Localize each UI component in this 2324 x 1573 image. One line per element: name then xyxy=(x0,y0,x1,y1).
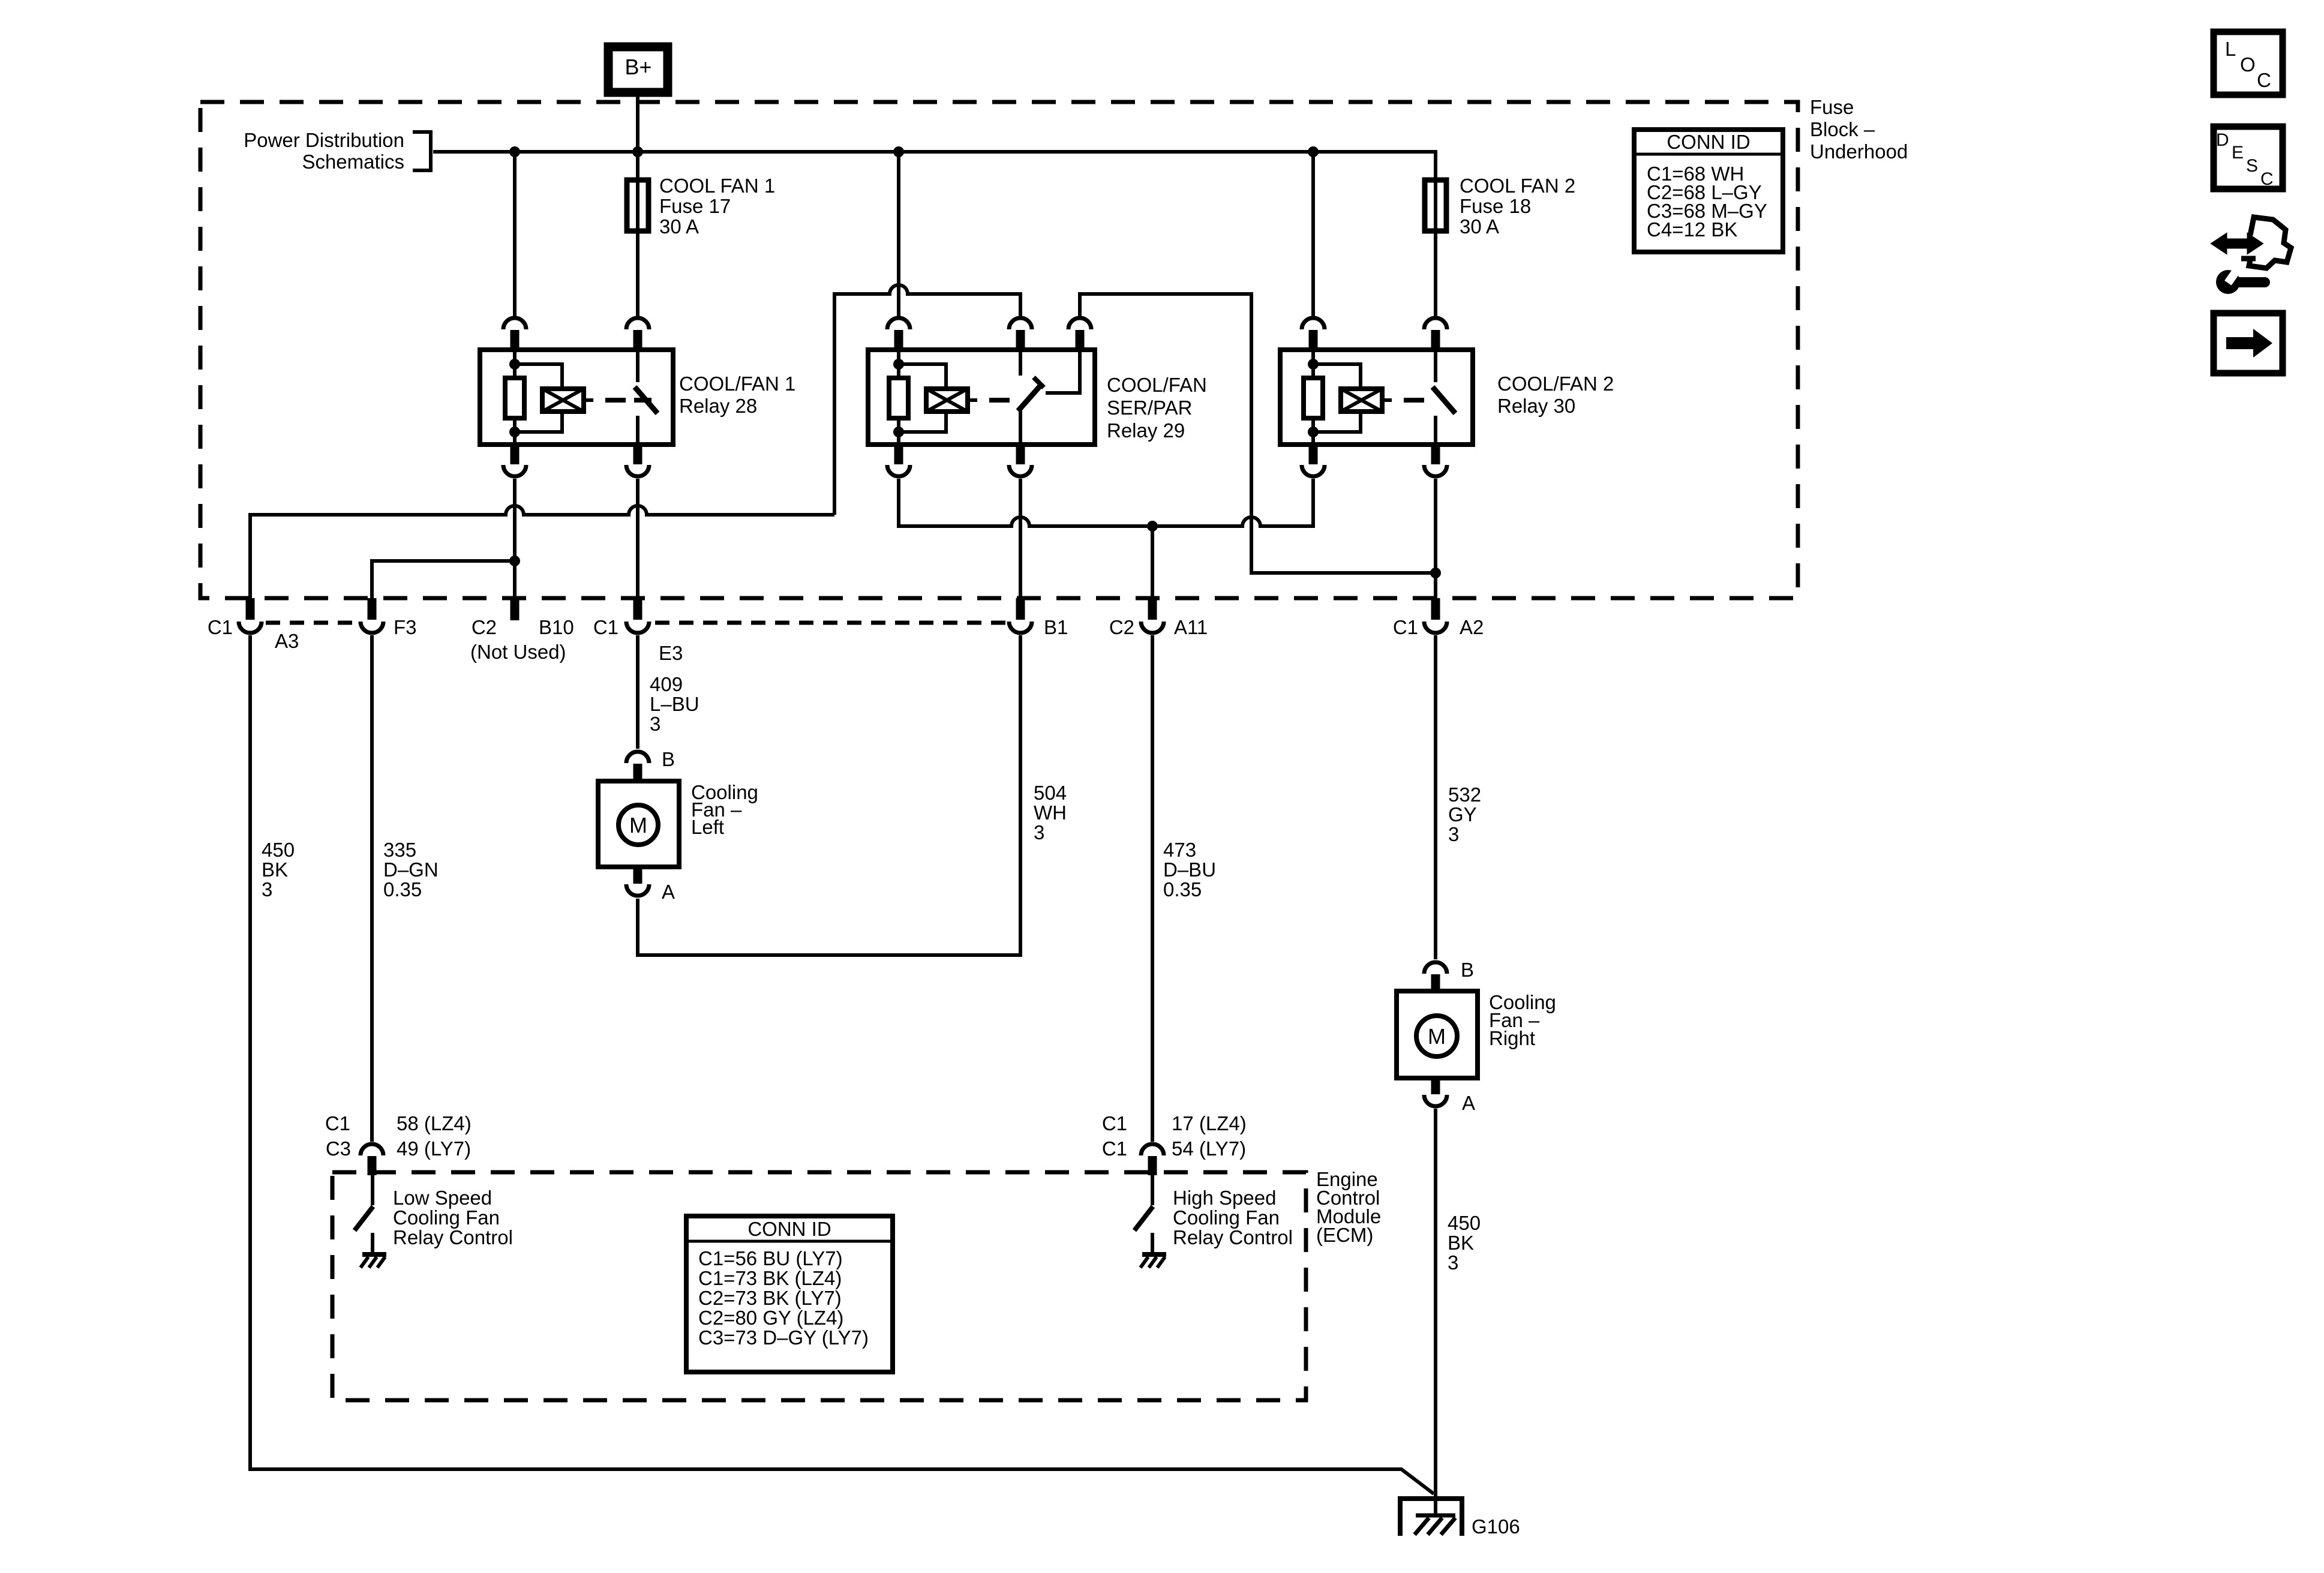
svg-text:Low Speed: Low Speed xyxy=(393,1187,492,1209)
svg-text:Fuse 18: Fuse 18 xyxy=(1460,195,1531,217)
svg-text:M: M xyxy=(1428,1024,1446,1049)
svg-text:Block –: Block – xyxy=(1810,118,1875,140)
svg-text:Relay 28: Relay 28 xyxy=(679,395,757,417)
svg-text:504: 504 xyxy=(1034,782,1067,804)
svg-text:(Not Used): (Not Used) xyxy=(470,641,566,663)
svg-text:C1: C1 xyxy=(1102,1112,1127,1134)
svg-text:C1=73 BK (LZ4): C1=73 BK (LZ4) xyxy=(698,1267,842,1289)
svg-text:C2=73 BK (LY7): C2=73 BK (LY7) xyxy=(698,1287,842,1309)
svg-text:C1=56 BU (LY7): C1=56 BU (LY7) xyxy=(698,1247,843,1269)
svg-text:3: 3 xyxy=(1448,1251,1458,1274)
svg-text:3: 3 xyxy=(650,713,660,735)
svg-text:3: 3 xyxy=(262,878,272,900)
svg-text:30 A: 30 A xyxy=(659,215,699,238)
svg-text:A2: A2 xyxy=(1460,616,1484,638)
svg-text:3: 3 xyxy=(1448,823,1459,845)
svg-text:COOL FAN 1: COOL FAN 1 xyxy=(659,175,775,197)
svg-text:D–GN: D–GN xyxy=(383,858,439,881)
svg-text:473: 473 xyxy=(1163,839,1196,861)
svg-text:L–BU: L–BU xyxy=(650,693,699,715)
svg-text:E: E xyxy=(2232,143,2244,163)
svg-text:D–BU: D–BU xyxy=(1163,858,1216,881)
svg-text:C1: C1 xyxy=(1393,616,1418,638)
svg-text:E3: E3 xyxy=(659,642,683,664)
svg-text:54 (LY7): 54 (LY7) xyxy=(1172,1137,1246,1160)
svg-text:M: M xyxy=(629,813,647,837)
svg-text:COOL/FAN 1: COOL/FAN 1 xyxy=(679,373,795,395)
svg-text:GY: GY xyxy=(1448,803,1477,825)
svg-text:C1: C1 xyxy=(1102,1137,1127,1160)
svg-text:WH: WH xyxy=(1034,801,1067,824)
svg-text:C1: C1 xyxy=(325,1112,350,1134)
svg-text:450: 450 xyxy=(262,839,295,861)
svg-text:CONN ID: CONN ID xyxy=(747,1218,831,1240)
svg-text:D: D xyxy=(2216,130,2229,150)
svg-text:409: 409 xyxy=(650,673,683,695)
svg-text:COOL/FAN: COOL/FAN xyxy=(1107,374,1207,396)
svg-text:C: C xyxy=(2260,169,2274,189)
svg-text:O: O xyxy=(2240,53,2256,76)
svg-text:Fuse 17: Fuse 17 xyxy=(659,195,731,217)
svg-text:Right: Right xyxy=(1489,1027,1535,1049)
svg-text:CONN ID: CONN ID xyxy=(1667,131,1750,153)
svg-text:A3: A3 xyxy=(275,630,299,652)
svg-text:L: L xyxy=(2225,38,2236,60)
svg-text:Underhood: Underhood xyxy=(1810,140,1908,163)
svg-text:BK: BK xyxy=(262,858,288,881)
svg-text:C2: C2 xyxy=(472,616,497,638)
svg-text:Relay Control: Relay Control xyxy=(1173,1226,1293,1248)
svg-text:Relay Control: Relay Control xyxy=(393,1226,513,1248)
svg-text:B: B xyxy=(662,748,675,770)
svg-text:532: 532 xyxy=(1448,784,1481,806)
svg-text:B1: B1 xyxy=(1044,616,1068,638)
svg-text:F3: F3 xyxy=(394,616,417,638)
svg-text:Left: Left xyxy=(691,816,724,838)
svg-text:C: C xyxy=(2257,69,2271,91)
svg-text:A: A xyxy=(1462,1092,1475,1114)
svg-text:C3: C3 xyxy=(326,1137,351,1160)
svg-text:C4=12 BK: C4=12 BK xyxy=(1647,218,1737,241)
svg-text:C1: C1 xyxy=(208,616,233,638)
svg-text:(ECM): (ECM) xyxy=(1316,1224,1373,1246)
svg-text:B10: B10 xyxy=(539,616,574,638)
svg-text:3: 3 xyxy=(1034,821,1044,843)
svg-text:450: 450 xyxy=(1448,1212,1481,1234)
svg-text:COOL FAN 2: COOL FAN 2 xyxy=(1460,175,1575,197)
svg-text:58 (LZ4): 58 (LZ4) xyxy=(397,1112,472,1134)
svg-text:C3=73 D–GY (LY7): C3=73 D–GY (LY7) xyxy=(698,1326,869,1349)
svg-text:C2: C2 xyxy=(1109,616,1134,638)
svg-text:SER/PAR: SER/PAR xyxy=(1107,397,1192,419)
svg-text:Power Distribution: Power Distribution xyxy=(244,129,404,151)
svg-text:C2=80 GY (LZ4): C2=80 GY (LZ4) xyxy=(698,1307,843,1329)
svg-text:Relay 29: Relay 29 xyxy=(1107,419,1185,442)
svg-text:Cooling Fan: Cooling Fan xyxy=(393,1206,500,1229)
svg-text:A11: A11 xyxy=(1174,616,1208,638)
svg-text:Schematics: Schematics xyxy=(302,151,404,173)
svg-text:G106: G106 xyxy=(1472,1515,1520,1538)
svg-text:0.35: 0.35 xyxy=(383,878,422,900)
svg-text:B+: B+ xyxy=(624,55,651,79)
svg-text:A: A xyxy=(662,881,675,903)
svg-text:Cooling Fan: Cooling Fan xyxy=(1173,1206,1280,1229)
svg-text:High Speed: High Speed xyxy=(1173,1187,1276,1209)
svg-text:COOL/FAN 2: COOL/FAN 2 xyxy=(1497,373,1614,395)
svg-text:17 (LZ4): 17 (LZ4) xyxy=(1172,1112,1247,1134)
svg-text:49 (LY7): 49 (LY7) xyxy=(397,1137,471,1160)
svg-text:C1: C1 xyxy=(593,616,618,638)
svg-text:30 A: 30 A xyxy=(1460,215,1499,238)
svg-text:B: B xyxy=(1461,959,1474,981)
svg-text:Relay 30: Relay 30 xyxy=(1497,395,1575,417)
svg-text:0.35: 0.35 xyxy=(1163,878,1202,900)
svg-text:S: S xyxy=(2246,156,2258,176)
svg-text:BK: BK xyxy=(1448,1232,1474,1254)
svg-text:Fuse: Fuse xyxy=(1810,96,1854,118)
svg-text:335: 335 xyxy=(383,839,416,861)
